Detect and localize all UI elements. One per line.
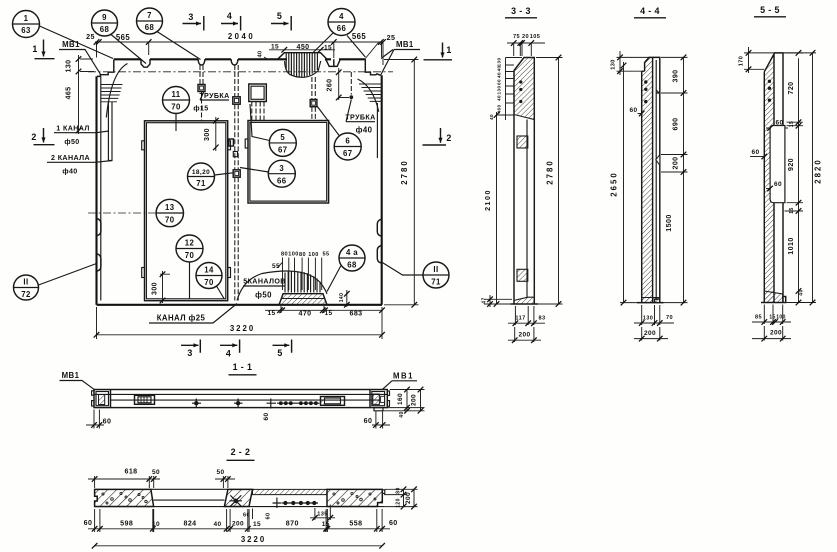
right edge lifting notch lower: [377, 246, 381, 264]
svg-text:40: 40: [497, 95, 502, 101]
callout circle 3/66: [240, 160, 295, 187]
kanal window 1: [135, 395, 155, 404]
svg-text:15: 15: [322, 521, 330, 528]
axis dashed line: [88, 71, 393, 73]
svg-text:40: 40: [497, 72, 502, 78]
trubka f40 dashed: [350, 72, 352, 95]
svg-text:83: 83: [538, 316, 545, 322]
svg-text:160: 160: [397, 393, 404, 405]
svg-text:4 а: 4 а: [346, 248, 358, 257]
left block hatched: [95, 489, 154, 506]
svg-text:II: II: [433, 265, 438, 274]
svg-text:130: 130: [65, 59, 73, 72]
strip outline: [514, 58, 534, 305]
trubka f40 dot: [349, 95, 353, 99]
label fan lines: [283, 258, 322, 291]
svg-text:3: 3: [188, 12, 193, 22]
svg-text:12: 12: [185, 239, 195, 248]
door opening left rect: [145, 121, 228, 301]
svg-text:200: 200: [518, 332, 530, 339]
svg-text:7: 7: [147, 11, 152, 20]
callout circle 1/63: [13, 11, 114, 59]
svg-text:КАНАЛ ф25: КАНАЛ ф25: [157, 314, 206, 323]
svg-text:15: 15: [789, 207, 795, 213]
svg-text:20: 20: [522, 34, 529, 40]
svg-text:870: 870: [286, 520, 299, 528]
SECTION 1-1: [60, 362, 425, 429]
left end block: [110, 390, 112, 408]
right dim 2780: [384, 60, 419, 305]
svg-text:2820: 2820: [814, 158, 823, 183]
svg-text:3 - 3: 3 - 3: [511, 6, 531, 16]
diamond marker 2: [236, 401, 240, 405]
anchor box upper: [517, 136, 528, 148]
svg-text:2 КАНАЛА: 2 КАНАЛА: [51, 154, 90, 162]
svg-text:598: 598: [120, 520, 133, 528]
svg-text:683: 683: [349, 310, 362, 318]
svg-text:50: 50: [216, 469, 224, 476]
top channels block 450: [278, 53, 327, 60]
svg-text:68: 68: [100, 25, 110, 34]
svg-text:11: 11: [171, 90, 180, 99]
left corner splay arc: [106, 64, 127, 118]
svg-text:105: 105: [530, 34, 541, 40]
trubka f15 nut: [198, 85, 205, 92]
svg-text:18,20: 18,20: [192, 169, 210, 176]
bar outline: [94, 390, 387, 408]
strip hatched: [764, 53, 774, 303]
middle web lines: [95, 489, 384, 506]
right channel dashed pair with nut: [312, 77, 315, 121]
svg-text:1 КАНАЛ: 1 КАНАЛ: [56, 125, 89, 133]
svg-text:МВ1: МВ1: [396, 40, 414, 49]
svg-text:1010: 1010: [787, 237, 795, 254]
callout circle 9/68: [92, 10, 147, 64]
panel bottom edge: [97, 304, 383, 306]
callout circle 11/70: [163, 87, 190, 132]
rebar dot cluster: [267, 399, 320, 409]
head hatched: [514, 58, 534, 120]
svg-text:4 - 4: 4 - 4: [640, 6, 660, 16]
svg-text:300: 300: [151, 282, 159, 295]
SECTION 2-2: [84, 447, 418, 549]
svg-text:6: 6: [345, 137, 350, 146]
opening right rect: [248, 121, 329, 204]
left edge lifting notch lower: [97, 254, 101, 271]
svg-text:2780: 2780: [400, 159, 409, 184]
svg-text:71: 71: [196, 179, 206, 188]
right block aggregate dots: [333, 492, 376, 504]
svg-text:40: 40: [213, 521, 221, 528]
MAIN ELEVATION VIEW: [88, 43, 393, 305]
foot hatched: [642, 298, 660, 303]
svg-text:3220: 3220: [241, 535, 266, 544]
svg-text:130: 130: [497, 86, 502, 95]
svg-text:565: 565: [352, 32, 366, 41]
svg-text:70: 70: [666, 315, 673, 321]
foot hatched: [514, 297, 534, 304]
svg-text:2: 2: [31, 132, 36, 142]
svg-text:14: 14: [204, 266, 214, 275]
bottom 5 channels verticals: [285, 271, 320, 292]
svg-text:60: 60: [84, 519, 93, 527]
svg-text:200: 200: [411, 394, 418, 406]
SECTION 4-4: [610, 6, 688, 341]
svg-text:55: 55: [322, 252, 329, 258]
SECTION 5-5: [739, 5, 823, 341]
svg-text:67: 67: [343, 149, 352, 158]
svg-text:40: 40: [799, 289, 805, 295]
svg-text:117: 117: [515, 316, 525, 322]
svg-text:120: 120: [396, 498, 402, 508]
kanal window 2: [321, 397, 345, 406]
right wedge hatched: [224, 489, 252, 506]
callout circle 4/66: [312, 9, 365, 58]
center small fitting: [229, 139, 234, 146]
svg-text:200: 200: [770, 330, 782, 337]
svg-text:15: 15: [324, 310, 332, 317]
svg-text:558: 558: [349, 520, 362, 528]
svg-text:60: 60: [103, 418, 112, 426]
svg-text:824: 824: [183, 520, 196, 528]
strip hatched: [642, 57, 653, 302]
right corner splay arc: [358, 79, 379, 112]
right rect hinge mark: [245, 139, 248, 148]
svg-text:100: 100: [288, 252, 299, 258]
svg-text:100: 100: [308, 252, 319, 258]
wedge X anchor: [234, 499, 239, 504]
svg-text:2 - 2: 2 - 2: [231, 447, 251, 457]
center nut upper: [233, 97, 240, 104]
svg-text:60: 60: [497, 79, 502, 85]
right dims 160/40/200: [384, 390, 425, 411]
head dots: [519, 80, 522, 83]
svg-text:25: 25: [387, 34, 396, 42]
svg-text:60: 60: [775, 120, 783, 127]
callout circle 6/67: [317, 106, 361, 160]
trubka f15 dashed line: [200, 65, 203, 121]
right triangle notch 200: [656, 155, 660, 166]
embedded plate square: [249, 84, 266, 102]
svg-text:47: 47: [482, 297, 488, 303]
svg-text:4: 4: [226, 349, 231, 359]
right edge lifting notch upper: [377, 219, 381, 236]
callout circle 12/70: [176, 235, 203, 299]
svg-text:75: 75: [513, 34, 520, 40]
svg-text:40: 40: [489, 114, 494, 120]
svg-text:ф40: ф40: [356, 126, 373, 135]
top-right corner: [365, 59, 380, 75]
svg-text:15: 15: [789, 121, 795, 127]
svg-text:85: 85: [755, 315, 762, 321]
diamond marker 1: [194, 401, 198, 405]
svg-text:1 - 1: 1 - 1: [233, 362, 253, 372]
right end block: [369, 390, 371, 408]
svg-text:4: 4: [227, 11, 232, 21]
svg-text:9: 9: [102, 13, 107, 22]
svg-text:1500: 1500: [665, 214, 673, 231]
svg-text:465: 465: [65, 86, 73, 99]
bottom channels envelope curve: [237, 271, 327, 300]
svg-text:2650: 2650: [610, 171, 619, 196]
corner extension diagonal: [365, 43, 378, 59]
MAIN VIEW ANNOTATIONS: [13, 8, 453, 359]
panel top edge: [114, 58, 365, 60]
svg-text:80: 80: [281, 252, 288, 258]
right corner channel hatch: [359, 84, 382, 101]
right chain dims: [661, 57, 688, 302]
panel left edge: [95, 76, 97, 304]
svg-text:720: 720: [787, 81, 795, 94]
svg-text:3: 3: [279, 164, 284, 173]
right channel nut: [310, 100, 317, 107]
top notch trapezoid: [141, 59, 150, 67]
svg-text:40: 40: [399, 411, 405, 417]
bottom trapezoid block: [279, 294, 328, 305]
middle plate: [770, 126, 785, 203]
svg-text:МВ1: МВ1: [62, 371, 80, 380]
svg-text:4: 4: [339, 12, 344, 21]
svg-text:2780: 2780: [546, 159, 555, 184]
svg-text:ф50: ф50: [255, 291, 272, 300]
svg-text:140: 140: [339, 293, 345, 303]
svg-text:690: 690: [672, 117, 680, 130]
svg-text:1: 1: [24, 14, 29, 23]
svg-text:170: 170: [739, 56, 745, 67]
svg-text:470: 470: [298, 310, 311, 318]
svg-text:15: 15: [267, 310, 275, 317]
svg-text:60: 60: [364, 417, 373, 425]
inner horizontal lines: [94, 394, 387, 400]
svg-text:5: 5: [277, 348, 282, 358]
svg-text:5 - 5: 5 - 5: [760, 5, 780, 15]
svg-text:МВ1: МВ1: [62, 40, 80, 49]
svg-text:390: 390: [672, 69, 680, 82]
callout circle 18,20/71: [188, 163, 234, 190]
door left hinge marks: [142, 141, 145, 150]
top notch V right: [326, 59, 340, 66]
svg-text:50: 50: [152, 469, 160, 476]
plate dashed drops: [252, 102, 264, 121]
left block aggregate dots: [102, 492, 147, 504]
svg-text:3220: 3220: [230, 324, 255, 333]
callout circle 4a/68: [327, 245, 365, 292]
svg-text:60: 60: [266, 512, 272, 519]
svg-text:60: 60: [751, 149, 759, 156]
svg-text:67: 67: [278, 146, 287, 155]
top notch round A: [198, 59, 205, 65]
svg-text:200: 200: [644, 330, 656, 337]
svg-text:5КАНАЛОВ: 5КАНАЛОВ: [243, 278, 286, 286]
svg-text:130: 130: [497, 58, 502, 67]
svg-text:ТРУБКА: ТРУБКА: [345, 114, 375, 122]
svg-text:68: 68: [347, 261, 357, 270]
svg-text:2: 2: [446, 133, 451, 143]
panel right edge: [381, 75, 383, 304]
svg-text:40: 40: [497, 66, 502, 72]
svg-text:80: 80: [396, 487, 402, 493]
svg-text:3: 3: [187, 348, 192, 358]
bottom dim 15/470/15/683: [265, 306, 383, 313]
left edge lifting notch upper: [97, 219, 101, 236]
svg-text:66: 66: [337, 24, 347, 33]
SECTION 3-3: [482, 6, 563, 343]
svg-text:60: 60: [263, 412, 270, 420]
strip dots: [768, 80, 771, 83]
svg-text:66: 66: [277, 176, 287, 185]
svg-text:2040: 2040: [228, 32, 255, 41]
svg-text:55: 55: [272, 263, 280, 270]
callout circle 7/68: [137, 8, 201, 60]
rebar line and dots: [273, 498, 319, 509]
svg-text:15: 15: [324, 45, 332, 52]
svg-text:II: II: [23, 278, 28, 287]
svg-text:1: 1: [32, 44, 37, 54]
svg-text:2100: 2100: [484, 189, 492, 211]
svg-text:5: 5: [277, 11, 282, 21]
svg-text:ф40: ф40: [62, 168, 77, 176]
svg-text:60: 60: [389, 519, 398, 527]
left channel lines: [108, 102, 112, 161]
svg-text:70: 70: [165, 216, 175, 225]
top flange band: [253, 489, 328, 494]
svg-text:70: 70: [185, 251, 195, 260]
svg-text:200: 200: [405, 492, 412, 504]
svg-text:300: 300: [203, 128, 211, 141]
center channel dashed pair: [235, 65, 238, 301]
svg-text:70: 70: [204, 278, 214, 287]
right dims 80/120/200: [384, 489, 418, 506]
left corner channel hatch: [101, 85, 123, 102]
callout circle II/71: [382, 262, 450, 288]
svg-text:ф15: ф15: [193, 105, 208, 113]
callout circle 13/70: [88, 199, 184, 226]
top dimension line 565/2040/565: [95, 42, 383, 65]
foot hatched: [764, 291, 782, 303]
callout circle 5/67: [250, 104, 296, 156]
svg-text:71: 71: [431, 278, 441, 287]
anchor box lower: [517, 269, 528, 281]
right end tab: [382, 490, 385, 494]
svg-text:МВ1: МВ1: [393, 372, 414, 381]
bottom dim 3220: [97, 307, 383, 339]
svg-text:260: 260: [326, 78, 334, 91]
svg-text:10: 10: [152, 521, 160, 528]
svg-text:68: 68: [145, 23, 155, 32]
svg-text:40: 40: [258, 50, 264, 57]
svg-text:63: 63: [21, 26, 31, 35]
svg-text:72: 72: [21, 290, 31, 299]
svg-text:15: 15: [253, 521, 261, 528]
svg-text:1: 1: [446, 45, 451, 55]
callout circle 14/70: [196, 263, 224, 299]
svg-text:60: 60: [774, 181, 782, 188]
svg-text:60: 60: [629, 107, 637, 114]
svg-text:920: 920: [787, 158, 795, 171]
svg-text:70: 70: [171, 103, 181, 112]
right channel line: [376, 103, 378, 158]
strip dots: [644, 80, 647, 83]
top notch round B: [231, 59, 238, 65]
center nut lower: [233, 170, 240, 177]
svg-text:13: 13: [165, 203, 175, 212]
svg-text:618: 618: [124, 468, 137, 476]
svg-text:130: 130: [611, 59, 617, 70]
top-left corner chamfer: [97, 60, 114, 77]
svg-text:5: 5: [280, 133, 285, 142]
right chain dims: [785, 53, 804, 303]
bottom chain dims: [88, 528, 390, 530]
svg-text:ф50: ф50: [64, 138, 79, 146]
svg-text:25: 25: [86, 33, 95, 41]
right notch at 390: [656, 90, 660, 94]
svg-text:200: 200: [672, 156, 680, 169]
svg-text:ТРУБКА: ТРУБКА: [199, 92, 229, 100]
svg-text:200: 200: [232, 521, 244, 528]
callout circle II/72: [14, 264, 97, 301]
svg-text:80: 80: [299, 252, 306, 258]
right block hatched: [327, 489, 382, 506]
